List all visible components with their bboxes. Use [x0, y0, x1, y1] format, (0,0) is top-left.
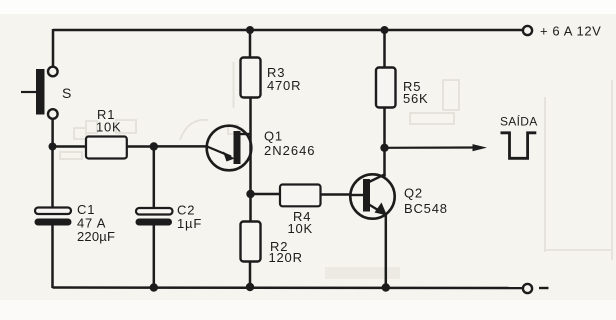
svg-text:+ 6 A 12V: + 6 A 12V [540, 24, 601, 39]
wire: node B down to C2 [153, 147, 156, 209]
svg-text:S: S [62, 85, 72, 101]
svg-text:Q2: Q2 [404, 186, 423, 201]
svg-text:56K: 56K [403, 91, 429, 106]
wire: left rail junction A to C1 [51, 147, 54, 209]
wire: top supply rail [53, 29, 523, 32]
wire: top rail to R5 [383, 30, 386, 68]
svg-text:10K: 10K [96, 120, 122, 135]
wire: Q2 emitter to bottom rail [385, 214, 388, 288]
wire: C2 to bottom rail [153, 224, 156, 288]
svg-text:SAÍDA: SAÍDA [500, 114, 538, 129]
faint scan ghosts (decorative) [60, 62, 612, 279]
junction: node B (R1/C2/Q1 emitter) [150, 142, 158, 150]
wire: bottom rail [53, 286, 524, 289]
wire: R3 down through Q1 to R2 [249, 97, 252, 222]
switch S (push-button) [21, 67, 72, 119]
junction: node D (R5 / Q2 collector / output) [380, 144, 388, 152]
junction: top rail / R3 [246, 26, 254, 34]
terminal: negative [523, 284, 549, 293]
wire: R1 to node B [127, 145, 155, 148]
svg-text:220µF: 220µF [77, 229, 115, 244]
junction: node A (R1/C1/switch) [49, 143, 57, 151]
wire: node B to Q1 emitter [154, 145, 208, 148]
capacitor C1 47A 220uF (electrolytic) [35, 202, 116, 244]
wire: R2 to bottom rail [249, 261, 252, 288]
svg-text:2N2646: 2N2646 [264, 143, 316, 158]
svg-text:120R: 120R [269, 250, 303, 265]
resistor R5 56K [376, 68, 429, 108]
svg-text:BC548: BC548 [404, 201, 448, 216]
wire: R4 to Q2 base [321, 193, 352, 196]
svg-text:1µF: 1µF [177, 216, 202, 231]
wire: node C to R4 [250, 193, 280, 196]
wire: output arrow from node D [385, 144, 488, 151]
capacitor C2 1uF (electrolytic) [136, 203, 203, 232]
svg-text:Q1: Q1 [264, 129, 283, 144]
transistor Q2 BC548 (NPN) [350, 174, 447, 219]
transistor Q1 2N2646 (UJT) [207, 126, 316, 171]
label SAIDA with output pulse symbol [500, 114, 538, 159]
resistor R2 120R [241, 222, 303, 266]
wire: C1 to bottom rail [51, 224, 54, 288]
wire: top-left corner drop to switch [52, 29, 55, 67]
junction: node C (Q1 B1 / R2 / R4) [246, 190, 254, 198]
resistor R4 10K [280, 185, 321, 237]
junction: Q2 emitter / bottom rail [382, 283, 390, 291]
junction: top rail / R5 [381, 26, 389, 34]
junction: R2 / bottom rail [246, 283, 254, 291]
wire: left rail switch to junction A [51, 119, 54, 147]
wire: junction A to R1 [53, 145, 87, 148]
svg-text:10K: 10K [288, 221, 314, 236]
svg-text:470R: 470R [267, 78, 301, 93]
wire: R5 to Q2 collector [383, 108, 386, 177]
junction: C2 / bottom rail [150, 283, 158, 291]
terminal: +6 A 12V supply [523, 24, 602, 39]
resistor R3 470R [241, 58, 302, 98]
resistor R1 10K [86, 107, 127, 159]
wire: top rail to R3 [249, 30, 252, 58]
